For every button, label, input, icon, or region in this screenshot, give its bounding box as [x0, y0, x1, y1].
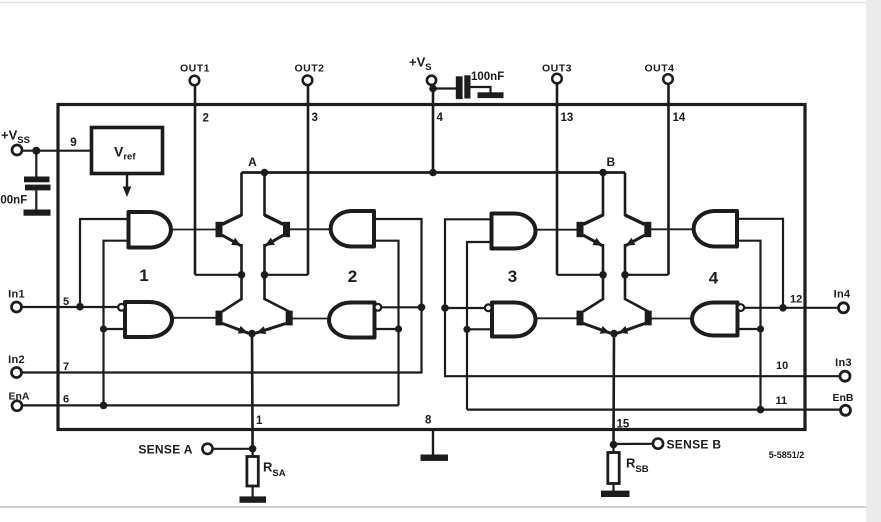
svg-text:3: 3	[508, 267, 517, 286]
wire OUT3 vertical	[556, 83, 559, 275]
wire Q6 collector	[583, 275, 603, 312]
junction dot sense A	[249, 445, 257, 453]
inverter bubble gate 3 lower	[485, 304, 492, 311]
label In1	[8, 289, 25, 301]
transistor Q1 (half-bridge A upper left)	[216, 215, 242, 275]
svg-text:EnB: EnB	[833, 392, 854, 404]
pin EnA terminal	[12, 401, 22, 411]
pin EnB terminal	[841, 405, 851, 415]
capacitor C1 100nF (Vss bypass)	[24, 151, 51, 210]
wire In2 to gate 2	[21, 219, 421, 373]
supply rail wire (node A to node B)	[242, 171, 626, 174]
inverter bubble gate 2 lower	[375, 304, 382, 311]
wire In1 into block	[21, 306, 118, 308]
svg-text:EnA: EnA	[9, 390, 30, 402]
wire +Vs to capacitor	[433, 85, 456, 89]
wire gate 4 upper output to Q7 base	[651, 228, 692, 230]
inverter bubble gate 4 lower	[737, 304, 744, 311]
junction dot In1 branch	[76, 303, 84, 311]
junction dot sense A common emitters	[248, 330, 256, 338]
pin number 5	[63, 296, 69, 308]
pin number 9	[70, 135, 77, 149]
svg-text:A: A	[248, 155, 257, 169]
wire In1 up to gate 1 upper input	[80, 219, 129, 307]
pin In2 terminal	[12, 368, 22, 378]
label SENSE B	[667, 438, 722, 452]
wire OUT1 node jog	[195, 274, 242, 276]
svg-text:B: B	[606, 155, 615, 169]
wire EnB up to gate 3 inputs	[467, 242, 492, 410]
pin number 11	[776, 395, 788, 407]
ground (RSB)	[601, 491, 630, 497]
block label 2	[348, 267, 357, 286]
wire In2 branch to gate 2 lower bubble	[381, 306, 421, 308]
node B label	[606, 155, 615, 169]
svg-text:5: 5	[63, 296, 69, 308]
transistor Q4 (half-bridge A lower right)	[256, 311, 293, 335]
block label 3	[508, 267, 517, 286]
pin number 12	[790, 294, 802, 306]
label Vref	[114, 144, 136, 163]
wire OUT2 node jog	[265, 274, 309, 276]
transistor Q8 (half-bridge B lower right)	[618, 311, 652, 334]
pin number 15	[617, 419, 630, 431]
wire sense B vertical	[612, 334, 615, 445]
junction dot EnA to gate 1 lower	[100, 325, 107, 332]
svg-text:In3: In3	[835, 357, 852, 369]
junction dot +Vs on rail	[429, 169, 437, 177]
svg-text:13: 13	[561, 112, 574, 124]
pin number 10	[776, 360, 788, 372]
pin number 14	[673, 112, 686, 124]
label OUT2	[294, 63, 324, 75]
ground (RSA)	[240, 496, 267, 502]
label EnA	[9, 390, 30, 402]
wire sense node to SENSE B	[614, 443, 654, 445]
AND gate 3 upper	[492, 214, 536, 249]
wire gate 2 lower output to Q4 base	[290, 318, 329, 320]
svg-text:OUT2: OUT2	[294, 63, 324, 75]
pin +Vs terminal	[427, 76, 436, 85]
wire In3 branch to gate 3 lower bubble	[445, 307, 485, 309]
pin In1 terminal	[12, 302, 22, 312]
transistor Q3 (half-bridge A upper right)	[265, 215, 291, 275]
block label 1	[139, 266, 148, 285]
junction dot OUT4 node	[621, 271, 629, 279]
wire Q8 collector	[625, 275, 648, 312]
wire OUT1 vertical	[194, 85, 197, 275]
junction dot OUT3 node	[599, 271, 607, 279]
wire OUT4 node jog	[625, 274, 669, 276]
label EnB	[833, 392, 854, 404]
block label 4	[709, 269, 719, 288]
pin In3 terminal	[840, 371, 850, 381]
pin SENSE A terminal	[202, 444, 212, 454]
node A junction dot	[261, 169, 269, 177]
wire EnA up to gate 1 inputs	[104, 241, 129, 406]
wire OUT2 vertical	[307, 85, 310, 275]
wire gate 1 upper output to Q1 base	[173, 229, 216, 231]
junction dot In3 branch	[441, 304, 449, 312]
svg-text:15: 15	[617, 419, 630, 431]
label In2	[8, 354, 25, 366]
wire gate 3 lower output to Q6 base	[536, 317, 578, 319]
transistor Q7 (half-bridge B upper right)	[625, 215, 651, 275]
wire gate 4 lower output to Q8 base	[652, 318, 693, 320]
wire EnB up to gate 4 inputs	[737, 241, 761, 410]
junction dot EnA to gate 2 lower	[395, 325, 402, 332]
wire SENSE A to sense node	[212, 448, 253, 450]
junction dot OUT2 node	[261, 271, 269, 279]
Vref output arrow	[123, 174, 132, 198]
inverter bubble gate 1 lower	[118, 304, 125, 311]
svg-text:SENSE A: SENSE A	[138, 443, 192, 457]
pin number 6	[63, 394, 69, 406]
label SENSE A	[138, 443, 192, 457]
AND gate 4 upper	[694, 211, 737, 247]
wire Q1 collector to rail	[240, 173, 243, 217]
svg-text:9: 9	[70, 135, 77, 149]
wire +Vss to Vref	[22, 150, 92, 152]
wire Q3 collector to rail	[263, 173, 266, 217]
pin SENSE B terminal	[653, 439, 663, 449]
label OUT4	[644, 62, 674, 74]
svg-text:OUT1: OUT1	[180, 63, 210, 75]
svg-text:100nF: 100nF	[0, 195, 27, 207]
AND gate 2 lower (inverting input)	[329, 303, 375, 338]
wire EnA branch to gate 2 lower input	[375, 328, 399, 330]
junction dot OUT1 node	[238, 271, 246, 279]
wire In3 to gate 3	[445, 219, 840, 376]
AND gate 3 lower (inverting input)	[492, 303, 536, 337]
value label RSA	[263, 460, 286, 480]
wire EnA branch to gate 1 lower input	[104, 328, 126, 330]
pin +Vss terminal	[12, 145, 22, 155]
resistor RSA	[247, 449, 258, 497]
Vref regulator block U1	[92, 128, 163, 174]
label In3	[835, 357, 852, 369]
ground (pin 8)	[421, 455, 449, 461]
figure number 5-5851/2	[769, 450, 805, 460]
pin number 7	[63, 361, 69, 373]
value label RSB	[626, 456, 649, 476]
transistor Q6 (half-bridge B lower left)	[577, 311, 611, 334]
transistor Q5 (half-bridge B upper left)	[577, 215, 604, 275]
svg-text:5-5851/2: 5-5851/2	[769, 450, 805, 460]
junction dot EnA branch left	[100, 402, 108, 410]
value label 100nF (C1)	[0, 195, 27, 207]
junction dot EnB branch right	[757, 406, 765, 414]
wire pin 8 to ground	[432, 430, 434, 456]
junction dot +Vs	[429, 85, 437, 93]
junction dot sense B common emitters	[610, 330, 618, 338]
svg-text:2: 2	[203, 113, 209, 125]
svg-text:OUT3: OUT3	[542, 62, 572, 74]
wire OUT3 node jog	[557, 274, 603, 276]
svg-text:1: 1	[139, 266, 148, 285]
junction dot sense B	[610, 441, 618, 449]
AND gate 1 lower (inverting input)	[125, 302, 172, 337]
pin OUT3 terminal	[552, 74, 562, 84]
pin number 3	[312, 112, 318, 124]
junction dot In2 branch	[418, 304, 426, 312]
junction dot EnB to gate 3 lower	[463, 326, 470, 333]
wire EnA into block	[22, 404, 399, 406]
svg-text:3: 3	[312, 112, 318, 124]
junction dot EnB to gate 4 lower	[757, 325, 764, 332]
junction dot +Vss / capacitor	[32, 147, 40, 155]
transistor Q2 (half-bridge A lower left)	[216, 311, 249, 334]
svg-text:OUT4: OUT4	[644, 62, 674, 74]
svg-text:14: 14	[673, 112, 686, 124]
svg-text:10: 10	[776, 360, 788, 372]
junction dot In4 branch	[779, 304, 787, 312]
wire Q7 collector to rail	[624, 173, 627, 217]
wire EnB branch to gate 4 lower input	[738, 328, 761, 330]
pin number 1	[256, 415, 263, 427]
svg-text:In1: In1	[8, 289, 25, 301]
AND gate 4 lower (inverting input)	[692, 303, 738, 336]
label OUT3	[542, 62, 572, 74]
svg-text:12: 12	[790, 294, 802, 306]
wire Q4 collector	[265, 275, 290, 312]
pin number 8	[425, 415, 432, 427]
pin OUT1 terminal	[190, 76, 200, 86]
svg-text:4: 4	[709, 269, 719, 288]
svg-text:100nF: 100nF	[471, 71, 504, 83]
wire EnB into block	[467, 409, 841, 411]
wire In4 up to gate 4 upper input	[737, 219, 783, 308]
pin number 2	[203, 113, 209, 125]
wire In4 into block	[744, 307, 838, 309]
node B junction dot	[599, 169, 607, 177]
wire OUT4 vertical	[667, 84, 670, 275]
pin number 13	[561, 112, 574, 124]
wire sense A vertical	[251, 334, 254, 449]
value label 100nF (C2)	[471, 71, 504, 83]
svg-text:In4: In4	[834, 289, 851, 301]
wire +Vs down to supply rail	[432, 89, 435, 173]
wire gate 1 lower output to Q2 base	[172, 317, 216, 319]
wire Q5 collector to rail	[602, 173, 605, 217]
label +Vs	[409, 55, 432, 74]
label +Vss	[1, 128, 30, 147]
wire EnA up to gate 2 inputs	[374, 241, 399, 406]
svg-text:SENSE B: SENSE B	[667, 438, 722, 452]
resistor RSB	[608, 445, 619, 491]
ground (Vss capacitor)	[24, 210, 51, 216]
svg-text:6: 6	[63, 394, 69, 406]
AND gate 1 upper	[129, 212, 171, 248]
AND gate 2 upper	[331, 211, 374, 247]
node A label	[248, 155, 257, 169]
svg-text:11: 11	[776, 395, 788, 407]
wire gate 2 upper output to Q3 base	[290, 228, 329, 230]
svg-text:1: 1	[256, 415, 263, 427]
pin OUT2 terminal	[303, 76, 313, 86]
svg-text:4: 4	[437, 112, 444, 124]
pin In4 terminal	[839, 303, 849, 313]
label In4	[834, 289, 851, 301]
wire capacitor C2 to ground	[471, 87, 491, 93]
label OUT1	[180, 63, 210, 75]
svg-text:7: 7	[63, 361, 69, 373]
svg-text:8: 8	[425, 415, 432, 427]
capacitor C2 100nF (Vs bypass)	[456, 75, 471, 99]
pin number 4	[437, 112, 444, 124]
svg-text:2: 2	[348, 267, 357, 286]
wire EnB branch to gate 3 lower input	[467, 328, 492, 330]
pin OUT4 terminal	[663, 74, 673, 84]
ground (Vs capacitor)	[478, 92, 504, 98]
wire gate 3 upper output to Q5 base	[536, 229, 578, 231]
wire Q2 collector	[222, 275, 241, 312]
svg-text:In2: In2	[8, 354, 25, 366]
IC block outline	[58, 105, 805, 430]
